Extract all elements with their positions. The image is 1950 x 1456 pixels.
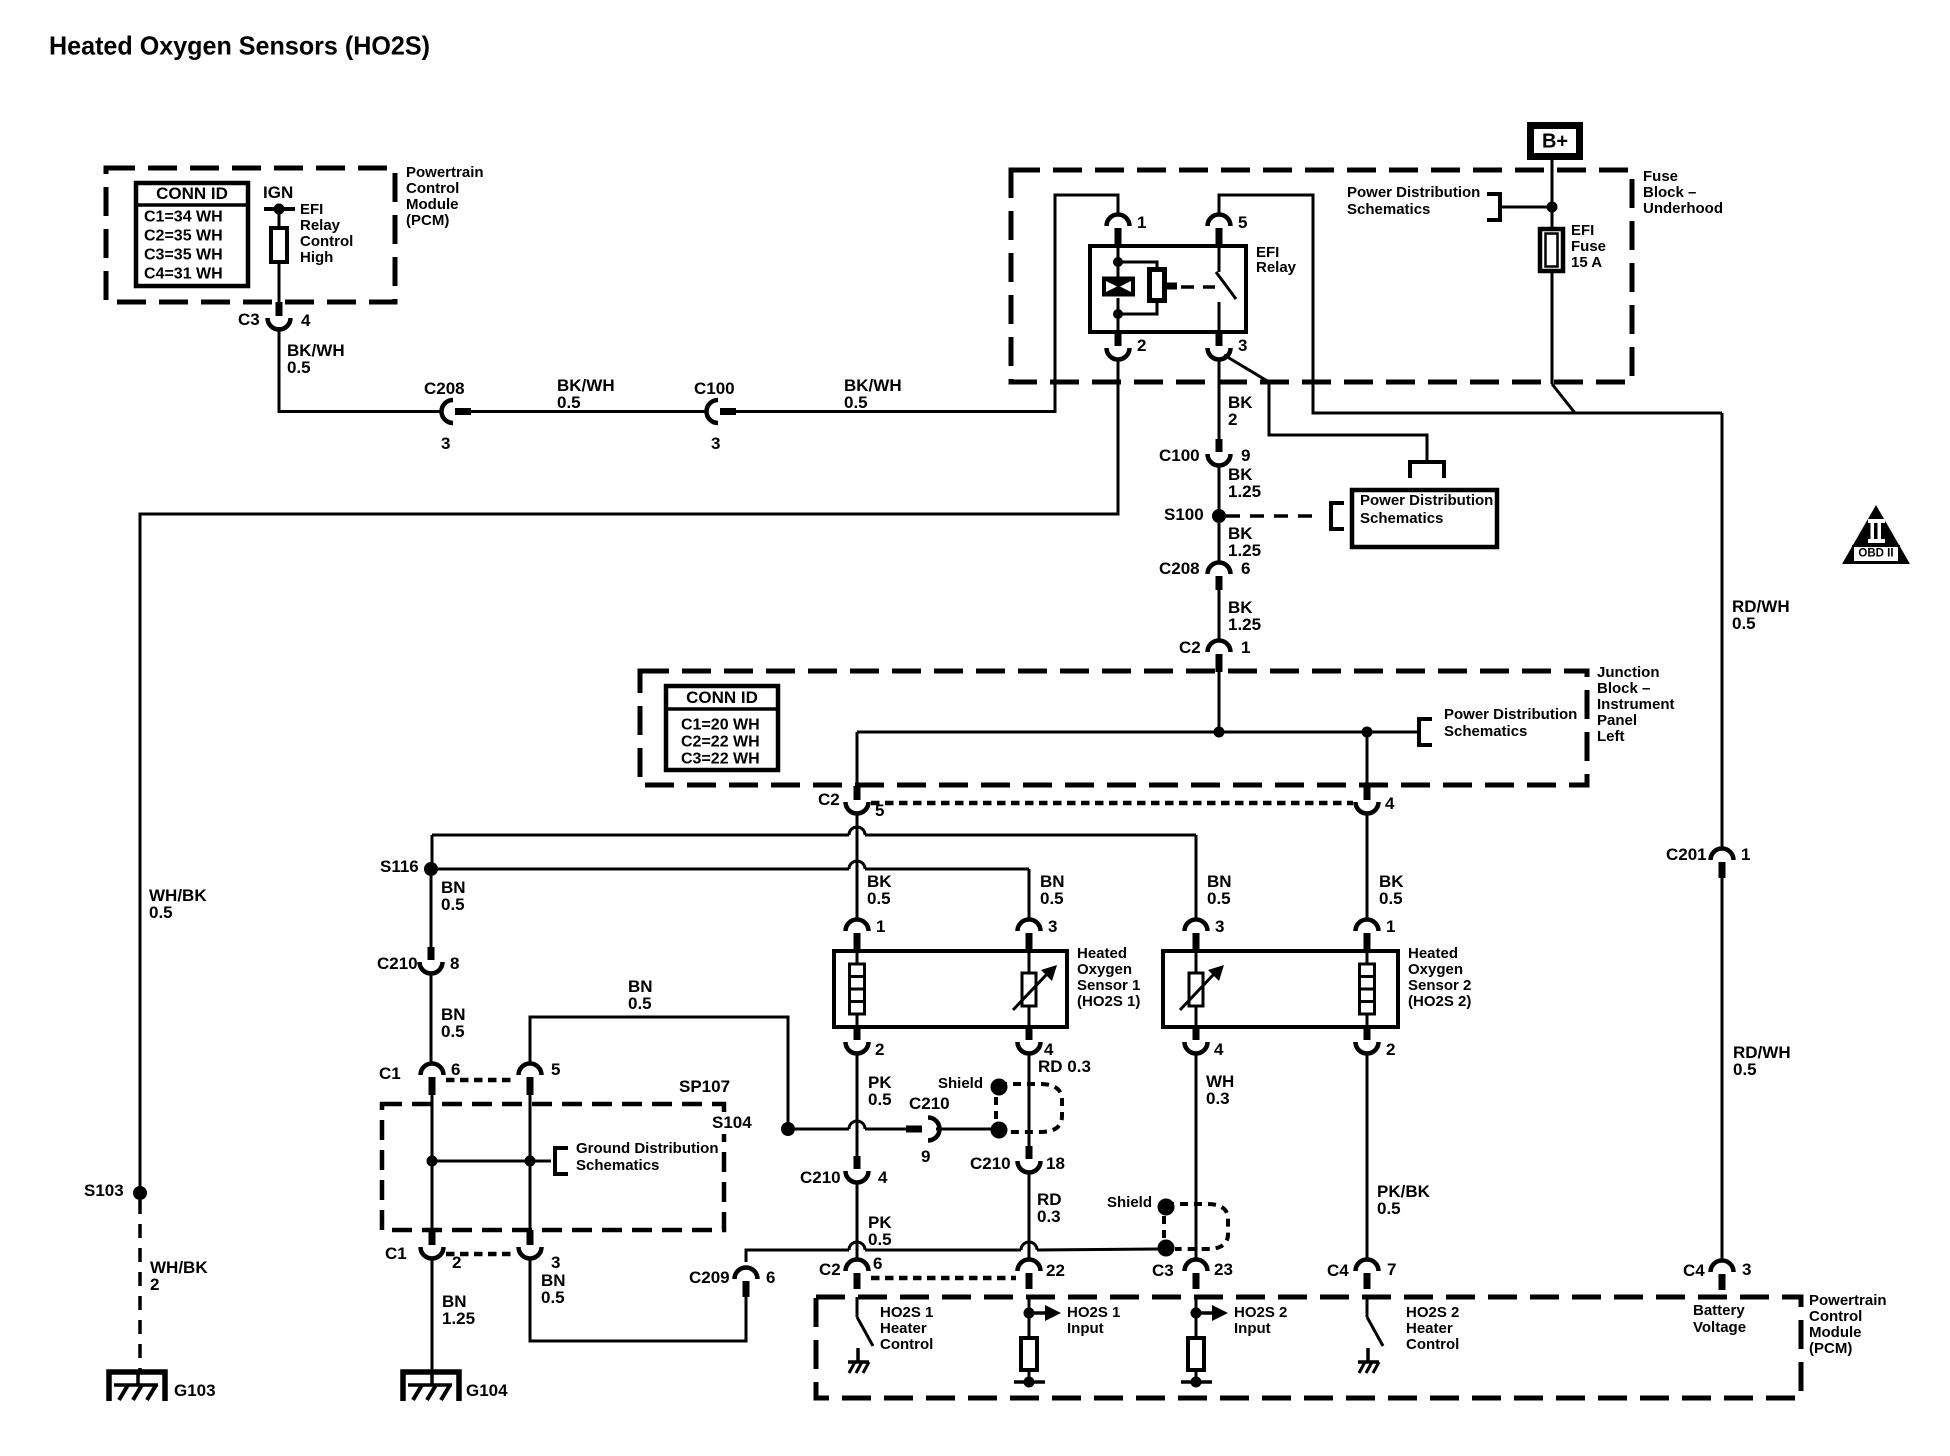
wire BK 0.5 C2-4 to HO2S2 pin 1 xyxy=(1366,813,1369,920)
svg-text:Oxygen: Oxygen xyxy=(1408,961,1463,978)
svg-text:0.5: 0.5 xyxy=(557,393,581,412)
svg-text:CONN ID: CONN ID xyxy=(686,688,758,707)
table CONN ID (PCM) xyxy=(136,183,248,286)
wire C209-6 to HO2S2 shield drain xyxy=(746,1250,849,1262)
svg-text:Power Distribution: Power Distribution xyxy=(1444,706,1577,723)
svg-text:C208: C208 xyxy=(1159,559,1200,578)
svg-text:C2: C2 xyxy=(819,1260,841,1279)
svg-text:6: 6 xyxy=(873,1254,882,1273)
svg-text:Power Distribution: Power Distribution xyxy=(1360,492,1493,509)
svg-text:Ground Distribution: Ground Distribution xyxy=(576,1140,718,1157)
wire BN top run to HO2S2 pin 3 xyxy=(432,834,849,837)
wire relay pin5 to fuse feed xyxy=(1219,195,1722,413)
svg-text:2: 2 xyxy=(1386,1040,1395,1059)
svg-text:0.5: 0.5 xyxy=(1377,1199,1401,1218)
input HO2S1 signal xyxy=(1028,1297,1031,1338)
svg-text:0.5: 0.5 xyxy=(868,1090,892,1109)
SP107 internal wires xyxy=(431,1089,434,1230)
svg-text:2: 2 xyxy=(150,1275,159,1294)
svg-text:2: 2 xyxy=(875,1040,884,1059)
module box Fuse Block Underhood xyxy=(1011,170,1632,382)
wire WH/BK 2 S103 to G103 xyxy=(138,1200,142,1372)
input HO2S2 signal xyxy=(1195,1297,1198,1338)
svg-text:0.5: 0.5 xyxy=(867,889,891,908)
svg-text:22: 22 xyxy=(1046,1261,1065,1280)
svg-text:RD 0.3: RD 0.3 xyxy=(1038,1057,1091,1076)
connector C100 pin 3 (inline) xyxy=(707,400,719,423)
splice pack box SP107 xyxy=(382,1104,724,1230)
svg-text:S100: S100 xyxy=(1164,505,1204,524)
svg-text:6: 6 xyxy=(451,1060,460,1079)
svg-text:C1: C1 xyxy=(379,1064,401,1083)
wire S104 to C210-9 xyxy=(795,1128,849,1131)
connector C210 pin 9 (inline horizontal) xyxy=(906,1126,922,1133)
svg-text:Relay: Relay xyxy=(1256,259,1297,276)
svg-text:15 A: 15 A xyxy=(1571,254,1602,271)
sensor element HO2S2 xyxy=(1195,951,1198,973)
svg-text:C3: C3 xyxy=(1152,1261,1174,1280)
connector HO2S1 pin 2 xyxy=(854,1027,861,1040)
module box Junction Block Instrument Panel Left xyxy=(640,671,1587,785)
relay coil circuit xyxy=(1117,246,1120,278)
svg-text:Oxygen: Oxygen xyxy=(1077,961,1132,978)
svg-text:3: 3 xyxy=(551,1253,560,1272)
svg-text:Block –: Block – xyxy=(1597,680,1650,697)
svg-text:0.5: 0.5 xyxy=(1040,889,1064,908)
svg-text:3: 3 xyxy=(711,434,720,453)
svg-text:Block –: Block – xyxy=(1643,184,1696,201)
svg-text:C2=35 WH: C2=35 WH xyxy=(144,228,223,245)
junction block bus wire xyxy=(1218,671,1221,732)
svg-text:3: 3 xyxy=(1215,917,1224,936)
connector HO2S2 pin 2 xyxy=(1364,1027,1371,1040)
svg-text:C3=22 WH: C3=22 WH xyxy=(681,751,760,768)
svg-text:C1=20 WH: C1=20 WH xyxy=(681,717,760,734)
svg-text:0.5: 0.5 xyxy=(1733,1060,1757,1079)
svg-text:2: 2 xyxy=(1137,336,1146,355)
wire WH 0.3 HO2S2 pin4 to C3-23 xyxy=(1195,1053,1198,1260)
relay EFI Relay box xyxy=(1090,246,1246,332)
svg-text:Schematics: Schematics xyxy=(576,1157,659,1174)
svg-text:OBD II: OBD II xyxy=(1858,547,1893,559)
svg-text:(PCM): (PCM) xyxy=(406,212,449,229)
wire fuse to RD/WH feed xyxy=(1551,271,1554,384)
svg-text:C210: C210 xyxy=(800,1168,841,1187)
switch HO2S2 heater control driver xyxy=(1366,1297,1369,1317)
svg-text:Module: Module xyxy=(1809,1324,1862,1341)
ground G103 xyxy=(109,1372,165,1401)
svg-text:4: 4 xyxy=(1385,794,1395,813)
svg-text:3: 3 xyxy=(1238,336,1247,355)
dotted connector line C2-6 to C2-22 xyxy=(871,1276,1016,1281)
wire BN 0.5 SP107 pin5 up and over to S104 xyxy=(530,1017,788,1124)
svg-text:C210: C210 xyxy=(970,1154,1011,1173)
svg-text:EFI: EFI xyxy=(1571,222,1594,239)
reference Ground Distribution Schematics xyxy=(553,1146,557,1176)
wire BK 2 relay pin3 down xyxy=(1218,359,1221,440)
connector C210 pin 18 xyxy=(1026,1146,1033,1159)
svg-text:Relay: Relay xyxy=(300,217,341,234)
connector C2 pin 5 xyxy=(854,786,861,800)
dotted connector line C1-6 to SP107-5 xyxy=(446,1078,516,1083)
svg-text:3: 3 xyxy=(1742,1260,1751,1279)
svg-text:(HO2S 2): (HO2S 2) xyxy=(1408,993,1471,1010)
ground G104 xyxy=(403,1372,459,1401)
connector C2 pin 4 xyxy=(1364,786,1371,800)
svg-text:C201: C201 xyxy=(1666,845,1707,864)
wire BK 1.25 to S100 xyxy=(1218,465,1221,510)
svg-text:Control: Control xyxy=(1406,1336,1459,1353)
svg-text:Junction: Junction xyxy=(1597,664,1660,681)
splice S104 xyxy=(709,1112,762,1134)
wire BN 0.5 S116 down xyxy=(430,876,433,947)
svg-text:(PCM): (PCM) xyxy=(1809,1340,1852,1357)
wire RD 0.3 HO2S1 pin4 down xyxy=(1028,1053,1031,1146)
svg-text:2: 2 xyxy=(1228,410,1237,429)
heater element HO2S2 xyxy=(1366,951,1369,964)
wire BN 0.5 SP107 pin3 to C209-6 xyxy=(530,1258,746,1341)
wire PK 0.5 C210-4 to C2-6 xyxy=(856,1182,859,1260)
svg-text:3: 3 xyxy=(1048,917,1057,936)
battery feed B+ xyxy=(1531,126,1580,157)
svg-text:Voltage: Voltage xyxy=(1693,1319,1746,1336)
svg-text:C4=31 WH: C4=31 WH xyxy=(144,266,223,283)
connector C210 pin 8 xyxy=(428,947,435,960)
svg-text:G103: G103 xyxy=(174,1381,216,1400)
connector EFI relay pin 1 xyxy=(1107,215,1130,227)
svg-text:4: 4 xyxy=(301,311,311,330)
dotted connector line C2-5 to C2-4 xyxy=(871,801,1353,806)
wire RD/WH 0.5 to C201 xyxy=(1721,413,1724,849)
wire WH/BK 0.5 relay pin2 to S103 xyxy=(140,359,1118,1193)
svg-text:C100: C100 xyxy=(1159,446,1200,465)
svg-text:CONN ID: CONN ID xyxy=(156,184,228,203)
connector C1 pin 6 (SP107) xyxy=(421,1064,444,1076)
svg-text:1.25: 1.25 xyxy=(442,1309,475,1328)
svg-text:Powertrain: Powertrain xyxy=(406,164,484,181)
svg-text:C210: C210 xyxy=(377,954,418,973)
wire BK 1.25 to C2-1 xyxy=(1218,590,1221,641)
table CONN ID (junction block) xyxy=(666,686,778,770)
connector C208 pin 3 (inline) xyxy=(442,400,454,423)
svg-text:Schematics: Schematics xyxy=(1360,510,1443,527)
svg-text:Powertrain: Powertrain xyxy=(1809,1292,1887,1309)
wire RD/WH 0.5 C201 to PCM C4-3 xyxy=(1721,872,1724,1261)
svg-text:0.5: 0.5 xyxy=(287,358,311,377)
junction dot fuse feed xyxy=(1547,202,1558,213)
svg-text:18: 18 xyxy=(1046,1154,1065,1173)
wire BN lower run to HO2S1 pin 3 xyxy=(437,868,849,871)
svg-text:High: High xyxy=(300,249,333,266)
svg-text:C1=34 WH: C1=34 WH xyxy=(144,209,223,226)
module box Powertrain Control Module PCM bottom xyxy=(816,1297,1801,1398)
svg-text:Panel: Panel xyxy=(1597,712,1637,729)
svg-text:C1: C1 xyxy=(385,1244,407,1263)
wire PK 0.5 HO2S1 pin2 down xyxy=(856,1053,859,1156)
svg-text:5: 5 xyxy=(1238,213,1247,232)
connector C208 pin 6 xyxy=(1208,563,1231,575)
svg-text:0.5: 0.5 xyxy=(149,903,173,922)
svg-text:SP107: SP107 xyxy=(679,1077,730,1096)
svg-text:Sensor 2: Sensor 2 xyxy=(1408,977,1471,994)
svg-text:G104: G104 xyxy=(466,1381,508,1400)
svg-text:S103: S103 xyxy=(84,1181,124,1200)
svg-text:C4: C4 xyxy=(1327,1261,1349,1280)
sensor element HO2S1 xyxy=(1028,951,1031,973)
svg-text:Control: Control xyxy=(300,233,353,250)
svg-text:1: 1 xyxy=(1241,638,1250,657)
connector HO2S2 pin 1 xyxy=(1356,920,1379,932)
svg-text:Heated Oxygen Sensors (HO2S): Heated Oxygen Sensors (HO2S) xyxy=(49,31,430,61)
svg-text:6: 6 xyxy=(1241,559,1250,578)
svg-text:Power Distribution: Power Distribution xyxy=(1347,184,1480,201)
wire S100 down xyxy=(1218,523,1221,563)
svg-text:Shield: Shield xyxy=(938,1075,983,1092)
sensor box Heated Oxygen Sensor 2 xyxy=(1163,951,1398,1027)
splice S116 xyxy=(424,862,438,876)
heater element HO2S1 xyxy=(856,951,859,964)
wire B+ to EFI fuse xyxy=(1551,160,1554,229)
svg-text:HO2S 2: HO2S 2 xyxy=(1234,1304,1287,1321)
svg-text:C3=35 WH: C3=35 WH xyxy=(144,247,223,264)
wire resistor to connector C3 pin 4 xyxy=(278,262,281,302)
reference Power Distribution Schematics (junction block) xyxy=(1417,717,1421,747)
svg-text:EFI: EFI xyxy=(300,201,323,218)
svg-text:Input: Input xyxy=(1067,1320,1104,1337)
svg-text:0.5: 0.5 xyxy=(868,1230,892,1249)
svg-text:Fuse: Fuse xyxy=(1643,168,1678,185)
connector C4 pin 7 (PCM) xyxy=(1356,1260,1379,1272)
wire PK/BK 0.5 HO2S2 pin2 to C4-7 xyxy=(1366,1053,1369,1260)
connector C3 pin 4 xyxy=(276,302,283,316)
svg-text:23: 23 xyxy=(1214,1260,1233,1279)
wire relay pin3 diagonal to power distribution reference xyxy=(1224,355,1427,462)
relay switch xyxy=(1218,246,1221,272)
connector EFI relay pin 2 xyxy=(1115,333,1122,346)
svg-text:Heater: Heater xyxy=(1406,1320,1453,1337)
connector C210 pin 4 xyxy=(854,1156,861,1169)
svg-text:HO2S 1: HO2S 1 xyxy=(1067,1304,1120,1321)
wire BK/WH 0.5 from C3-4 to EFI relay pin 1 xyxy=(278,327,281,413)
reference goalpost to Power Distribution Schematics box xyxy=(1410,462,1444,478)
svg-text:0.3: 0.3 xyxy=(1206,1089,1230,1108)
wire BK/WH 0.5 from C100 to relay pin 1 xyxy=(736,195,1118,412)
svg-text:0.5: 0.5 xyxy=(1379,889,1403,908)
svg-text:C210: C210 xyxy=(909,1094,950,1113)
connector HO2S2 pin 4 xyxy=(1193,1027,1200,1040)
svg-text:1.25: 1.25 xyxy=(1228,541,1261,560)
wire S116 riser xyxy=(431,835,434,869)
svg-text:Control: Control xyxy=(406,180,459,197)
svg-text:C208: C208 xyxy=(424,379,465,398)
svg-text:1: 1 xyxy=(1386,917,1395,936)
fuse EFI Fuse 15 A xyxy=(1540,229,1563,271)
svg-text:0.5: 0.5 xyxy=(1732,614,1756,633)
connector HO2S2 pin 3 xyxy=(1185,920,1208,932)
connector C201 pin 1 xyxy=(1711,849,1734,861)
svg-text:9: 9 xyxy=(921,1147,930,1166)
svg-text:Sensor 1: Sensor 1 xyxy=(1077,977,1140,994)
connector HO2S1 pin 3 xyxy=(1018,920,1041,932)
svg-text:Left: Left xyxy=(1597,728,1625,745)
svg-text:8: 8 xyxy=(450,954,459,973)
svg-text:Fuse: Fuse xyxy=(1571,238,1606,255)
svg-text:Heater: Heater xyxy=(880,1320,927,1337)
svg-text:C2: C2 xyxy=(818,790,840,809)
wire C210-9 to shield drain dot xyxy=(936,1128,991,1131)
connector C3 pin 23 (PCM) xyxy=(1185,1260,1208,1272)
resistor EFI relay control driver (inside PCM) xyxy=(271,228,287,262)
svg-text:C2=22 WH: C2=22 WH xyxy=(681,734,760,751)
svg-text:Battery: Battery xyxy=(1693,1302,1745,1319)
svg-text:B+: B+ xyxy=(1542,130,1568,152)
wire BK/WH 0.5 between C208 and C100 xyxy=(471,410,708,413)
svg-text:C4: C4 xyxy=(1683,1261,1705,1280)
svg-text:Heated: Heated xyxy=(1408,945,1458,962)
svg-text:3: 3 xyxy=(441,434,450,453)
wire BN 1.25 C1-2 to G104 xyxy=(431,1258,434,1372)
svg-text:1: 1 xyxy=(1137,213,1146,232)
connector HO2S1 pin 1 xyxy=(846,920,869,932)
connector HO2S1 pin 4 xyxy=(1026,1027,1033,1040)
switch HO2S1 heater control driver xyxy=(856,1297,859,1317)
svg-text:0.5: 0.5 xyxy=(1207,889,1231,908)
svg-text:Control: Control xyxy=(880,1336,933,1353)
wire IGN to resistor xyxy=(278,209,281,228)
svg-text:C209: C209 xyxy=(689,1268,730,1287)
svg-text:1.25: 1.25 xyxy=(1228,615,1261,634)
wire BK 0.5 C2-5 to HO2S1 pin 1 xyxy=(856,813,859,920)
connector C100 pin 9 xyxy=(1216,439,1223,452)
svg-text:HO2S 1: HO2S 1 xyxy=(880,1304,933,1321)
svg-text:Schematics: Schematics xyxy=(1347,201,1430,218)
relay linkage dashes xyxy=(1181,285,1215,289)
svg-text:1: 1 xyxy=(1741,845,1750,864)
svg-text:4: 4 xyxy=(1214,1040,1224,1059)
wire BN 0.5 C210-8 to C1-6 xyxy=(430,973,433,1064)
relay suppression resistor xyxy=(1118,262,1157,270)
svg-text:HO2S 2: HO2S 2 xyxy=(1406,1304,1459,1321)
svg-text:Underhood: Underhood xyxy=(1643,200,1723,217)
svg-text:S104: S104 xyxy=(712,1113,752,1132)
module box Powertrain Control Module PCM top xyxy=(106,168,395,302)
svg-text:S116: S116 xyxy=(380,857,419,876)
splice S100 xyxy=(1212,509,1226,523)
symbol OBD II xyxy=(1842,505,1910,564)
svg-text:Module: Module xyxy=(406,196,459,213)
dotted connector line C1-2 to SP107-3 xyxy=(446,1252,516,1257)
svg-text:7: 7 xyxy=(1387,1260,1396,1279)
connector C2 pin 6 (PCM) xyxy=(846,1260,869,1272)
dashed wire S100 to power distribution reference xyxy=(1226,514,1320,518)
svg-text:Schematics: Schematics xyxy=(1444,723,1527,740)
svg-text:6: 6 xyxy=(766,1268,775,1287)
svg-text:Heated: Heated xyxy=(1077,945,1127,962)
connector C4 pin 3 (PCM battery voltage) xyxy=(1711,1261,1734,1273)
svg-text:Input: Input xyxy=(1234,1320,1271,1337)
svg-text:0.5: 0.5 xyxy=(441,895,465,914)
svg-text:C100: C100 xyxy=(694,379,735,398)
svg-text:5: 5 xyxy=(551,1060,560,1079)
connector C2 pin 22 (PCM) xyxy=(1018,1260,1041,1272)
sensor box Heated Oxygen Sensor 1 xyxy=(834,951,1067,1027)
svg-text:0.3: 0.3 xyxy=(1037,1207,1061,1226)
connector C2 pin 1 (junction block) xyxy=(1208,641,1231,653)
connector EFI relay pin 3 xyxy=(1216,333,1223,346)
svg-text:1: 1 xyxy=(876,917,885,936)
svg-text:IGN: IGN xyxy=(263,183,293,202)
svg-text:Instrument: Instrument xyxy=(1597,696,1675,713)
svg-text:Shield: Shield xyxy=(1107,1194,1152,1211)
wire RD 0.3 C210-18 to C2-22 xyxy=(1028,1172,1031,1260)
svg-text:0.5: 0.5 xyxy=(628,994,652,1013)
svg-text:C2: C2 xyxy=(1179,638,1201,657)
svg-text:1.25: 1.25 xyxy=(1228,482,1261,501)
svg-text:(HO2S 1): (HO2S 1) xyxy=(1077,993,1140,1010)
connector EFI relay pin 5 xyxy=(1218,195,1221,213)
connector SP107 pin 5 xyxy=(519,1064,542,1076)
relay coil symbol xyxy=(1102,277,1135,297)
svg-text:Control: Control xyxy=(1809,1308,1862,1325)
svg-text:0.5: 0.5 xyxy=(844,393,868,412)
connector C209 pin 6 xyxy=(735,1268,758,1280)
splice S103 xyxy=(133,1186,147,1200)
svg-text:4: 4 xyxy=(878,1168,888,1187)
svg-text:C3: C3 xyxy=(238,310,260,329)
connector SP107 pin 3 xyxy=(527,1230,534,1245)
svg-text:0.5: 0.5 xyxy=(441,1022,465,1041)
reference box Power Distribution Schematics (S100) xyxy=(1352,490,1497,547)
svg-text:9: 9 xyxy=(1241,446,1250,465)
connector C1 pin 2 xyxy=(429,1230,436,1245)
svg-text:0.5: 0.5 xyxy=(541,1288,565,1307)
